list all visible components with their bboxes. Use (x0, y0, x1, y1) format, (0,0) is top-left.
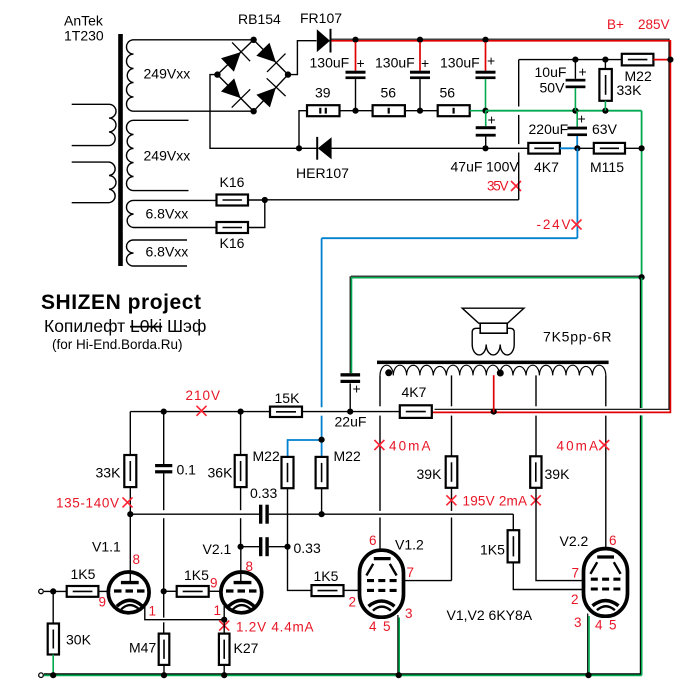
node -24V junction (574, 145, 580, 151)
resistor 36K (235, 412, 247, 547)
transformer T1 heater winding 6.8Vxx #1 (126, 200, 216, 227)
node 0.33#2 right (284, 544, 290, 550)
resistor R39 (307, 105, 340, 116)
svg-text:39: 39 (315, 85, 331, 101)
svg-text:+: + (421, 55, 429, 71)
svg-text:220uF: 220uF (529, 121, 569, 137)
tube V1.2 heater arc (373, 607, 391, 611)
capacitor C5 10uF 50V (566, 60, 587, 111)
resistor 33K (V1.1 anode load) (124, 412, 136, 573)
svg-text:63V: 63V (592, 121, 618, 137)
svg-text:40mA: 40mA (389, 439, 431, 454)
svg-text:39K: 39K (545, 466, 571, 482)
capacitor C6 220uF 63V (567, 111, 587, 149)
tube V2.2 grid dashes row2 (591, 587, 621, 590)
resistor M47 (159, 591, 170, 675)
diode HER107 (317, 137, 331, 160)
svg-text:M22: M22 (253, 448, 280, 464)
wire B+ rail black companion (331, 39, 669, 409)
wire heater bias vertical x519 (265, 60, 519, 200)
tube V2.2 envelope (584, 549, 628, 617)
svg-text:V1,V2 6KY8A: V1,V2 6KY8A (447, 607, 533, 623)
svg-text:HER107: HER107 (296, 165, 349, 181)
diode D3 (L to B edge) (221, 78, 241, 98)
label 40mA left with x mark (374, 439, 430, 454)
bridge rectifier RB154 diamond (217, 40, 288, 111)
wire 39 left to bias line (299, 111, 307, 149)
resistor M22 #2 (lower) (316, 457, 328, 514)
resistor 33K (top) (599, 60, 611, 111)
wire V1.1 cathode pin1 (145, 607, 224, 620)
node 33K top rail (602, 57, 608, 63)
resistor R56b (438, 105, 470, 116)
resistor M22 (top) (622, 54, 671, 66)
svg-text:V1.1: V1.1 (92, 539, 121, 555)
svg-text:Копилефт L0ki Шэф: Копилефт L0ki Шэф (44, 316, 206, 336)
svg-text:V2.2: V2.2 (560, 533, 589, 549)
svg-text:M47: M47 (129, 640, 156, 656)
svg-text:30K: 30K (66, 632, 92, 648)
svg-text:2: 2 (571, 592, 579, 607)
svg-text:8: 8 (133, 552, 141, 567)
node rail junction 1 (352, 37, 358, 43)
svg-text:4K7: 4K7 (534, 159, 559, 175)
pin labels 4 5 V1.2 (369, 619, 391, 634)
resistor 4K7 (output B+) (400, 405, 432, 418)
svg-text:M115: M115 (590, 159, 624, 175)
tube V1.1 heater arc (121, 605, 139, 609)
svg-text:FR107: FR107 (300, 10, 342, 26)
node 36K top (238, 409, 244, 415)
node bridge bottom vertex (250, 108, 256, 114)
tube V1.1 cathode arc (117, 600, 143, 606)
tube V2.2 grid dashes row1 (591, 578, 621, 581)
svg-text:AnTek: AnTek (64, 13, 104, 29)
capacitor C10 0.33 #2 (259, 537, 269, 556)
svg-text:100V: 100V (486, 159, 519, 175)
resistor M22 #1 (lower) (282, 457, 294, 547)
diode D4 (B to R edge) (256, 88, 275, 108)
node ground K27 (221, 672, 227, 678)
capacitor C8 0.1 (155, 412, 172, 592)
wire heater divider top line (519, 59, 622, 61)
node 10uF top (572, 108, 578, 114)
title SHIZEN project (41, 291, 201, 314)
tube V1.1 grid dashes (114, 589, 145, 592)
svg-text:35V: 35V (487, 179, 509, 194)
title Kopileft line (44, 316, 206, 336)
node B+ center tap junction (491, 409, 497, 415)
svg-text:5: 5 (383, 619, 391, 634)
node blue split (319, 437, 325, 443)
svg-text:249Vxx: 249Vxx (144, 148, 191, 164)
svg-text:9: 9 (99, 595, 107, 610)
wire 210V B+ line (input stage supply) (130, 411, 400, 413)
label 40mA right with x mark (557, 439, 610, 454)
node M115 to green (639, 145, 645, 151)
wire ground net right vertical (640, 277, 641, 675)
svg-text:8: 8 (246, 559, 254, 574)
node green corner (639, 274, 645, 280)
node V1.1 anode (127, 511, 133, 517)
wire bias line middle (331, 147, 528, 149)
diode D2 (T to R edge) (256, 43, 276, 63)
label 35V with x mark (487, 179, 521, 194)
wire to 1K5 vert (512, 514, 514, 530)
tube V2.1 grid dashes (226, 589, 257, 592)
wire blue -24V feed (288, 148, 578, 457)
node chain junction 1 (352, 108, 358, 114)
transformer T1 primary winding B (72, 162, 116, 203)
svg-text:+: + (357, 55, 365, 71)
wire V2.1 cathode pin1 (223, 606, 225, 620)
wire B+ rail red (331, 41, 670, 413)
svg-text:33K: 33K (96, 465, 122, 481)
wire ground net horizontal y277 (351, 276, 642, 278)
svg-text:56: 56 (440, 85, 456, 101)
resistor 1K5 (V1.1 grid) (67, 586, 109, 597)
svg-text:2: 2 (349, 595, 357, 610)
label -24V with x mark (537, 217, 582, 232)
svg-text:36K: 36K (208, 465, 234, 481)
node K27 top (221, 617, 227, 623)
capacitor C2 130uF (410, 42, 430, 111)
resistor 30K (48, 591, 59, 675)
wire ground rail (44, 674, 642, 676)
capacitor C7 22uF (341, 373, 361, 411)
svg-text:210V: 210V (186, 388, 221, 403)
resistor 1K5 (V2.1 grid) (164, 586, 221, 597)
svg-text:7: 7 (572, 566, 580, 581)
node 10uF top rail (572, 57, 578, 63)
transformer T1 secondary winding 249Vxx #1 (126, 40, 253, 111)
svg-text:+: + (487, 53, 495, 69)
tube V2.2 anode bar (597, 555, 614, 558)
wire input to 1K5 (44, 590, 67, 592)
output transformer secondary (speaker body) (472, 328, 514, 355)
tube V2.2 beam plates (590, 562, 620, 574)
svg-text:+: + (579, 64, 587, 80)
svg-text:7: 7 (407, 565, 415, 580)
label 220uF 63V (529, 121, 618, 137)
svg-text:39K: 39K (417, 466, 443, 482)
svg-text:5: 5 (609, 618, 617, 633)
svg-text:1.2V 4.4mA: 1.2V 4.4mA (236, 620, 314, 635)
wire terminal to ground rail (44, 674, 53, 676)
svg-text:B+: B+ (607, 17, 624, 32)
svg-text:K27: K27 (234, 640, 259, 656)
svg-text:1K5: 1K5 (184, 567, 209, 583)
svg-text:+: + (353, 381, 361, 397)
node bridge top vertex (250, 37, 256, 43)
resistor 1K5 (V2.2 grid) (508, 530, 584, 589)
wire V2.2 pin3 to ground (588, 614, 589, 676)
tube V2.1 cathode arc (228, 600, 254, 606)
capacitor C4 47uF 100V (476, 111, 496, 149)
wire V1.2 pin3 to ground (398, 615, 399, 675)
capacitor C3 130uF (476, 42, 496, 111)
output transformer primary winding (380, 365, 606, 375)
tube V1.2 grid dashes row2 (367, 589, 397, 592)
tube V2.1 heater arc (233, 605, 251, 609)
svg-text:130uF: 130uF (440, 55, 480, 71)
svg-text:47uF: 47uF (451, 159, 483, 175)
svg-text:249Vxx: 249Vxx (144, 66, 191, 82)
node K16 junction (262, 197, 268, 203)
input terminal top (39, 589, 44, 594)
node input 30K (50, 588, 56, 594)
tube V1.2 grid dashes row1 (367, 579, 397, 582)
svg-text:0.33: 0.33 (250, 485, 277, 501)
node grid bias junction (161, 588, 167, 594)
node 22uF bottom (347, 409, 353, 415)
node 47uF bottom (482, 145, 488, 151)
wire V1.1 anode line y514 (130, 513, 513, 515)
svg-text:285V: 285V (638, 17, 670, 32)
svg-text:0.33: 0.33 (294, 540, 321, 556)
wire green elevated net right vertical (641, 111, 643, 278)
wire bridge right vertex to FR107 anode (288, 41, 317, 75)
svg-text:+: + (488, 112, 496, 128)
wire OPT right end to V2.2 anode (605, 375, 607, 548)
capacitor C9 0.33 #1 (259, 505, 269, 524)
speaker coil rect (480, 323, 507, 333)
node bridge left vertex (214, 71, 220, 77)
svg-text:130uF: 130uF (375, 55, 415, 71)
wire V2.1 anode line y547 (241, 546, 288, 548)
wire 39K #2 to V2.2 pin7 (536, 488, 584, 581)
transformer T1 heater winding 6.8Vxx #2 (127, 240, 187, 266)
node bias tap (296, 145, 302, 151)
output transformer phase dot center (497, 370, 504, 377)
node rail junction 2 (417, 37, 423, 43)
wire 39K #1 to V1.2 pin7 (404, 488, 452, 581)
tube V1.1 anode bar (121, 572, 139, 582)
svg-text:7K5pp-6R: 7K5pp-6R (543, 329, 612, 345)
node bridge right vertex (285, 71, 291, 77)
node ground 30K (50, 672, 56, 678)
tube V2.1 anode bar (234, 547, 252, 583)
svg-text:40mA: 40mA (557, 439, 599, 454)
node rail junction 3 (482, 37, 488, 43)
resistor 1K5 (V1.2 grid) (312, 585, 360, 596)
svg-text:0.1: 0.1 (177, 462, 197, 478)
svg-text:6: 6 (609, 533, 617, 548)
label 1.2V 4.4mA with x mark (219, 620, 313, 635)
label 210V with x mark (186, 388, 221, 416)
svg-text:50V: 50V (540, 80, 566, 96)
svg-text:M22: M22 (334, 448, 361, 464)
tube V1.1 envelope (108, 572, 149, 613)
resistor M115 (577, 143, 641, 154)
node M22 to B+ (667, 57, 673, 63)
node ground V2.2 pin3 (585, 672, 591, 678)
svg-text:RB154: RB154 (238, 11, 281, 27)
node M22#2 bottom (319, 511, 325, 517)
svg-text:6.8Vxx: 6.8Vxx (146, 206, 189, 222)
wire center tap red (493, 375, 495, 412)
input terminal bottom (39, 673, 44, 678)
resistor 39K #1 (446, 456, 458, 488)
wire bridge left vertex to bias line (210, 75, 317, 149)
wire OPT tap to 39K #1 (451, 375, 453, 456)
wire M22#1 to 1K5 horiz (288, 547, 312, 591)
svg-text:1K5: 1K5 (314, 568, 339, 584)
svg-text:9: 9 (210, 576, 218, 591)
svg-text:22uF: 22uF (335, 414, 367, 430)
diode FR107 (317, 29, 331, 53)
tube V2.1 envelope (221, 572, 262, 613)
svg-text:195V 2mA: 195V 2mA (463, 494, 528, 509)
speaker horn (462, 308, 524, 323)
resistor K27 (219, 620, 230, 676)
tube V1.2 beam plates (366, 564, 396, 576)
svg-text:1: 1 (214, 603, 222, 618)
capacitor C1 130uF (346, 42, 366, 111)
node chain junction 2 (417, 108, 423, 114)
wire OPT left end to V1.2 anode (379, 375, 381, 550)
svg-text:1K5: 1K5 (480, 542, 505, 558)
node ground M47 (161, 672, 167, 678)
svg-text:3: 3 (574, 615, 582, 630)
label 135-140V with x mark (56, 496, 133, 511)
svg-text:56: 56 (381, 85, 397, 101)
svg-text:6.8Vxx: 6.8Vxx (146, 244, 189, 260)
svg-text:6: 6 (369, 533, 377, 548)
node 33K bottom (602, 108, 608, 114)
resistor K16 #2 (217, 200, 265, 233)
output transformer core (377, 361, 609, 365)
svg-text:SHIZEN project: SHIZEN project (41, 291, 201, 314)
svg-text:K16: K16 (220, 174, 245, 190)
node V2.1 anode (238, 544, 244, 550)
label 10uF 50V (535, 64, 567, 96)
svg-text:K16: K16 (220, 235, 245, 251)
tube V2.2 heater arc (597, 606, 615, 610)
node ground V1.2 pin3 (396, 672, 402, 678)
transformer T1 AnTek 1T230 core (118, 34, 123, 266)
resistor R56a (373, 105, 405, 116)
svg-text:1T230: 1T230 (64, 28, 104, 44)
transformer T1 primary winding A (72, 104, 116, 145)
svg-text:V1.2: V1.2 (395, 537, 424, 553)
svg-text:1: 1 (149, 604, 157, 619)
resistor 4K7 (bias) (528, 143, 577, 154)
label 195V 2mA with x marks (446, 494, 540, 509)
transformer T1 label (64, 13, 104, 44)
svg-text:4: 4 (369, 619, 377, 634)
svg-text:4K7: 4K7 (402, 384, 427, 400)
tube V1.2 cathode arc (369, 601, 395, 606)
wire negative filter chain (340, 110, 486, 112)
tube V1.2 anode bar (374, 557, 391, 560)
svg-text:130uF: 130uF (310, 55, 350, 71)
svg-text:33K: 33K (617, 82, 643, 98)
transformer T1 secondary winding 249Vxx #2 (126, 120, 188, 190)
svg-text:1K5: 1K5 (71, 566, 96, 582)
label 47uF 100V (451, 159, 520, 175)
resistor 15K (270, 407, 302, 417)
resistor K16 #1 (217, 195, 265, 206)
wire OPT tap to 39K #2 (535, 375, 537, 456)
tube V2.2 cathode arc (593, 601, 619, 606)
svg-text:15K: 15K (275, 390, 301, 406)
resistor 39K #2 (530, 456, 541, 488)
svg-text:4: 4 (595, 618, 603, 633)
diode D1 (L to T edge) (221, 52, 241, 72)
wire 22uF ground drop (350, 276, 351, 373)
label B+ 285V (607, 17, 670, 32)
node chain junction 3 (green net) (482, 108, 488, 114)
tube V1.2 envelope (360, 550, 404, 617)
node 0.1 top (161, 409, 167, 415)
wire green elevated net horizontal (486, 110, 642, 112)
svg-text:V2.1: V2.1 (203, 541, 232, 557)
svg-text:10uF: 10uF (535, 64, 567, 80)
svg-text:+: + (578, 111, 586, 127)
svg-text:135-140V: 135-140V (56, 496, 119, 511)
svg-text:3: 3 (405, 606, 413, 621)
pin labels 4 5 V2.2 (595, 618, 617, 633)
svg-text:(for Hi-End.Borda.Ru): (for Hi-End.Borda.Ru) (52, 337, 183, 352)
output transformer phase dot left (385, 369, 392, 376)
